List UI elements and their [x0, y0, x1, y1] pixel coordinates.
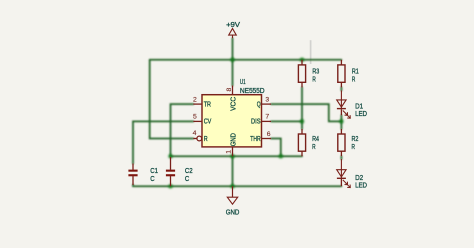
svg-text:GND: GND: [228, 133, 237, 147]
svg-text:LED: LED: [355, 181, 367, 190]
svg-text:TR: TR: [204, 99, 212, 108]
svg-text:C: C: [150, 174, 155, 183]
svg-text:1: 1: [226, 150, 233, 154]
svg-text:6: 6: [267, 131, 271, 138]
svg-text:2: 2: [193, 97, 197, 104]
svg-text:NE555D: NE555D: [240, 86, 265, 95]
svg-text:R: R: [204, 134, 208, 143]
svg-text:8: 8: [226, 88, 233, 92]
svg-text:VCC: VCC: [228, 96, 237, 111]
svg-text:Q: Q: [257, 99, 261, 108]
svg-text:CV: CV: [204, 117, 212, 126]
svg-text:U1: U1: [240, 77, 246, 86]
svg-text:GND: GND: [226, 208, 240, 217]
svg-text:R: R: [352, 142, 355, 151]
svg-text:R: R: [312, 142, 315, 151]
svg-text:4: 4: [193, 130, 197, 137]
svg-text:LED: LED: [355, 109, 367, 118]
svg-text:DIS: DIS: [251, 117, 261, 126]
svg-text:+9V: +9V: [226, 20, 240, 29]
svg-text:5: 5: [193, 114, 197, 121]
svg-text:3: 3: [265, 97, 269, 104]
svg-text:R: R: [312, 74, 315, 83]
svg-text:C: C: [185, 174, 190, 183]
svg-text:7: 7: [265, 114, 269, 121]
svg-text:THR: THR: [250, 134, 261, 143]
svg-text:R: R: [352, 74, 355, 83]
